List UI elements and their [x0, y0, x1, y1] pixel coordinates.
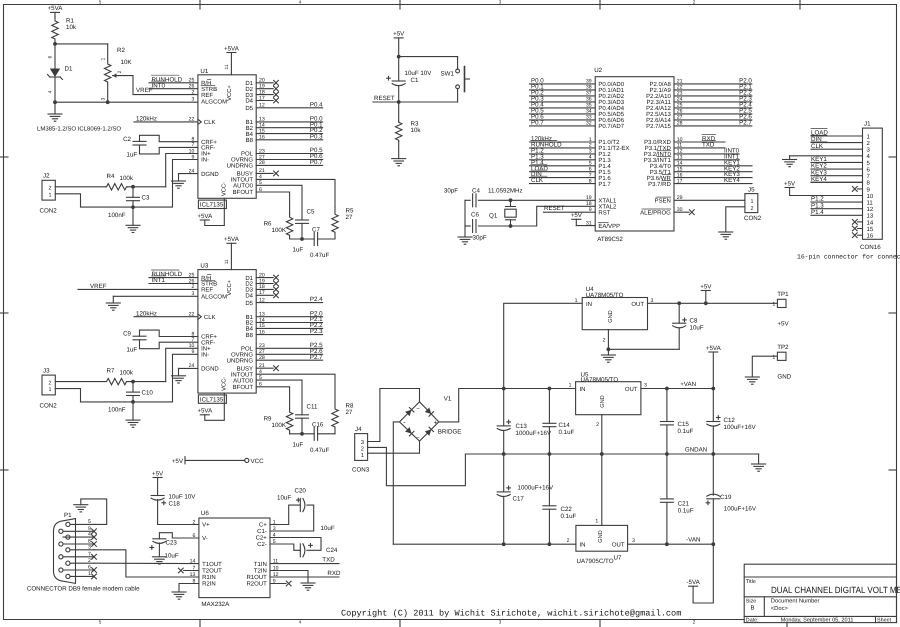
svg-text:U3: U3: [200, 263, 208, 270]
svg-text:XTAL1: XTAL1: [598, 198, 617, 205]
wire: [811, 148, 863, 150]
svg-text:10: 10: [867, 193, 874, 200]
svg-text:0.1uF: 0.1uF: [559, 429, 575, 436]
wire: [811, 161, 863, 163]
note DB9 cable: [27, 586, 140, 593]
svg-text:2: 2: [192, 89, 195, 95]
node KEY4: [724, 177, 740, 184]
power +5V (J1 pin10): [784, 180, 862, 195]
svg-text:P1.1/T2-EX: P1.1/T2-EX: [598, 145, 629, 152]
wire: [256, 127, 322, 129]
svg-text:B4: B4: [246, 326, 254, 333]
wire: [256, 164, 322, 166]
svg-text:DGND: DGND: [201, 366, 219, 373]
svg-text:P0.2/AD2: P0.2/AD2: [598, 93, 624, 100]
svg-text:VCC+: VCC+: [226, 279, 233, 295]
svg-text:1: 1: [772, 302, 775, 308]
wire: [530, 183, 596, 185]
svg-text:+5V: +5V: [784, 180, 796, 187]
svg-text:VCC: VCC: [251, 458, 265, 465]
wire: [256, 185, 302, 220]
ground (R2IN): [172, 592, 186, 599]
node RXD: [702, 135, 716, 143]
svg-text:TP2: TP2: [777, 344, 789, 351]
IC U2 AT89C52: [586, 67, 683, 243]
svg-text:1000uF+16V: 1000uF+16V: [516, 430, 552, 437]
wire: [256, 159, 322, 161]
svg-text:P2.6/A14: P2.6/A14: [646, 117, 671, 124]
svg-text:4: 4: [88, 532, 91, 538]
connector J2 CON2: [40, 173, 58, 215]
capacitor C8 10uF: [673, 303, 704, 331]
svg-text:OUT: OUT: [612, 542, 625, 549]
node P0.0: [310, 116, 323, 123]
capacitor C2 1uF: [123, 135, 198, 158]
svg-text:P0.7/AD7: P0.7/AD7: [598, 123, 624, 130]
crystal Q1 11.0592MHz: [488, 187, 523, 226]
svg-text:C8: C8: [690, 317, 698, 324]
capacitor C6 30pF: [471, 212, 487, 242]
svg-text:T2IN: T2IN: [254, 568, 267, 575]
node KEY3 (J1): [811, 169, 827, 176]
svg-text:R2: R2: [117, 47, 125, 54]
svg-text:4: 4: [48, 90, 54, 93]
svg-text:3: 3: [644, 382, 647, 388]
svg-text:3: 3: [632, 538, 635, 544]
wire: [674, 125, 752, 127]
capacitor C14 0.1uF: [543, 389, 575, 455]
svg-text:P2.2/A10: P2.2/A10: [646, 93, 671, 100]
svg-text:16: 16: [867, 233, 874, 240]
svg-text:1uF: 1uF: [293, 441, 304, 448]
svg-text:C5: C5: [307, 209, 315, 216]
svg-text:+5V: +5V: [172, 458, 184, 465]
switch SW1: [441, 67, 470, 103]
wire: [530, 159, 596, 161]
note LM385: [37, 126, 121, 133]
IC U3 ICL7135: [189, 259, 279, 403]
ground (J5): [719, 232, 733, 239]
wire: [674, 113, 752, 115]
wire: [674, 95, 752, 97]
svg-text:4: 4: [299, 620, 302, 625]
svg-text:U7: U7: [614, 555, 622, 562]
junction: [397, 55, 401, 59]
wire: [811, 208, 863, 210]
node P0.0: [531, 78, 544, 85]
svg-text:R7: R7: [107, 368, 115, 375]
ground (U1 DGND): [172, 174, 186, 189]
wire (U5 OUT +VAN rail): [641, 387, 715, 391]
capacitor C11 1uF: [293, 403, 318, 448]
svg-text:C9: C9: [123, 331, 131, 338]
svg-text:P0.3/AD3: P0.3/AD3: [598, 99, 624, 106]
svg-text:TXD: TXD: [702, 142, 715, 149]
capacitor C18 10uF 10V: [151, 494, 199, 525]
svg-text:C2+: C2+: [256, 535, 268, 542]
svg-text:IN: IN: [580, 542, 586, 549]
node IINT0: [724, 148, 740, 155]
svg-text:U2: U2: [594, 67, 602, 74]
svg-text:P2.5/A13: P2.5/A13: [646, 111, 671, 118]
svg-text:J4: J4: [355, 426, 362, 433]
svg-text:B8: B8: [246, 137, 254, 144]
wire: [674, 153, 739, 155]
wire: [63, 539, 94, 545]
svg-text:P2.7: P2.7: [739, 120, 752, 127]
svg-text:0.1uF: 0.1uF: [561, 513, 577, 520]
svg-text:C22: C22: [561, 506, 573, 513]
node LOAD (J1): [811, 129, 828, 137]
svg-text:B4: B4: [246, 131, 254, 138]
voltage regulator U5 UA78M05: [569, 371, 647, 428]
svg-text:ICL7135: ICL7135: [200, 202, 224, 209]
node P0.2: [531, 90, 544, 97]
node KEY1: [724, 159, 740, 166]
voltage regulator U4 UA78M05: [575, 286, 654, 344]
wire: [63, 551, 94, 557]
wire: [256, 153, 322, 155]
svg-text:DUAL CHANNEL DIGITAL VOLT METE: DUAL CHANNEL DIGITAL VOLT METER: [771, 585, 900, 595]
svg-text:4: 4: [299, 0, 302, 5]
wire (ALGCOM to ground): [113, 296, 198, 303]
wire: [63, 526, 94, 532]
connector J5 CON2: [744, 187, 762, 222]
svg-text:CRF-: CRF-: [201, 145, 215, 152]
node P0.7: [310, 159, 323, 166]
svg-text:1: 1: [101, 57, 107, 60]
svg-text:7: 7: [88, 551, 91, 557]
wire: [256, 322, 322, 324]
svg-text:P1.3: P1.3: [598, 157, 611, 164]
svg-text:VREF: VREF: [90, 283, 107, 290]
power -5VA: [686, 544, 713, 603]
node INT1: [149, 276, 198, 284]
node TXD: [702, 141, 716, 149]
svg-text:Monday, September 05, 2011: Monday, September 05, 2011: [781, 617, 854, 624]
power +5VA (above U3): [224, 236, 240, 270]
no-connect (P1): [92, 535, 97, 540]
node P0.1: [310, 121, 323, 128]
svg-text:0.1uF: 0.1uF: [678, 508, 694, 515]
resistor R7 100k: [106, 368, 134, 385]
svg-text:IN-: IN-: [201, 157, 209, 164]
svg-text:Copyright (C) 2011 by Wichit S: Copyright (C) 2011 by Wichit Sirichote, …: [341, 608, 681, 618]
svg-text:BRIDGE: BRIDGE: [438, 429, 462, 436]
svg-text:100uF+16V: 100uF+16V: [724, 424, 757, 431]
node P2.6: [310, 348, 323, 355]
svg-text:1: 1: [49, 192, 52, 198]
ground (below C3): [126, 207, 140, 232]
no-connect (J1): [852, 220, 862, 225]
title block: [744, 564, 900, 623]
svg-text:1uF: 1uF: [293, 247, 304, 254]
test point TP1: [772, 291, 789, 327]
wire: [63, 565, 94, 571]
svg-text:POL: POL: [241, 346, 254, 353]
svg-text:REF: REF: [201, 92, 213, 99]
svg-text:+5VA: +5VA: [197, 213, 213, 220]
svg-text:+5V: +5V: [393, 31, 405, 38]
node KEY2 (J1): [811, 163, 827, 170]
wire (U4 OUT rail): [648, 301, 778, 305]
node P2.5: [739, 108, 752, 115]
ground (U4): [601, 349, 615, 362]
svg-text:2: 2: [361, 446, 364, 453]
svg-text:B: B: [751, 605, 755, 612]
svg-text:BFOUT: BFOUT: [233, 384, 254, 391]
wire: [256, 359, 322, 361]
node KEY3: [724, 171, 740, 178]
wire (reference ground rail to ALGCOM): [53, 100, 198, 104]
svg-text:100K: 100K: [272, 227, 287, 234]
svg-text:R2OUT: R2OUT: [246, 581, 267, 588]
connector J1 CON16: [860, 121, 882, 251]
svg-text:R2IN: R2IN: [202, 581, 216, 588]
node KEY4 (J1): [811, 176, 827, 183]
svg-text:27: 27: [346, 409, 353, 416]
svg-text:15: 15: [867, 226, 874, 233]
svg-text:CON2: CON2: [40, 402, 58, 409]
node RXD (U6): [327, 570, 341, 577]
node P0.2: [310, 127, 323, 134]
svg-text:100K: 100K: [272, 422, 287, 429]
capacitor C13 1000uF+16V: [497, 389, 552, 455]
capacitor C12 100uF+16V: [707, 389, 757, 455]
svg-text:C12: C12: [724, 417, 736, 424]
svg-text:C1: C1: [411, 77, 419, 84]
svg-text:ICL7135: ICL7135: [200, 396, 224, 403]
note 16-pin connector: [797, 254, 900, 261]
node RESET (U2): [544, 205, 596, 212]
wire: [811, 201, 863, 203]
svg-text:2: 2: [88, 558, 91, 564]
node P2.1: [310, 316, 323, 323]
node P1.3: [531, 153, 544, 160]
svg-text:RESET: RESET: [544, 205, 565, 212]
capacitor C4 30pF: [444, 187, 481, 207]
wire: [674, 147, 725, 149]
svg-text:5: 5: [88, 519, 91, 525]
node P2.4: [739, 102, 752, 109]
svg-text:BUSY: BUSY: [237, 171, 253, 178]
wire (PSEN to J5): [674, 199, 745, 201]
wire: [530, 113, 596, 115]
svg-text:D4: D4: [245, 98, 253, 105]
svg-text:+5VA: +5VA: [224, 45, 240, 52]
test point TP2: [752, 344, 791, 380]
capacitor C1 10uF 10V: [387, 57, 433, 102]
svg-text:1uF: 1uF: [127, 346, 138, 353]
wire: [256, 347, 322, 349]
bridge rectifier V1: [400, 395, 462, 441]
wire: [674, 171, 752, 173]
svg-text:REF: REF: [201, 287, 213, 294]
resistor R1 10k: [52, 16, 77, 44]
wire (XTAL1 rail): [465, 198, 595, 202]
svg-text:UA78M05/TO: UA78M05/TO: [586, 292, 624, 299]
svg-text:P1.6: P1.6: [598, 175, 611, 182]
wire: [530, 125, 596, 127]
svg-text:120kHz: 120kHz: [136, 310, 157, 317]
power +5V to VCC tie: [172, 457, 264, 465]
wire: [530, 171, 596, 173]
wire: [55, 381, 106, 383]
wire (bridge + to rail): [439, 387, 576, 422]
node P1.2: [531, 148, 544, 155]
resistor R8 27: [332, 402, 354, 434]
svg-text:EA/VPP: EA/VPP: [598, 223, 620, 230]
svg-text:OUT: OUT: [631, 301, 644, 308]
svg-text:10uF: 10uF: [690, 324, 704, 331]
ground (TP2): [745, 377, 759, 384]
node P0.3: [310, 133, 323, 140]
svg-text:CON3: CON3: [352, 467, 370, 474]
svg-text:5: 5: [99, 0, 102, 5]
svg-text:U1: U1: [200, 68, 208, 75]
svg-text:C13: C13: [516, 423, 528, 430]
node P2.2: [310, 322, 323, 329]
svg-text:100uF+16V: 100uF+16V: [724, 506, 757, 513]
capacitor C23 10uF: [150, 533, 199, 560]
svg-text:SW1: SW1: [441, 70, 455, 77]
svg-text:INT0: INT0: [152, 82, 166, 89]
svg-text:10uF 10V: 10uF 10V: [169, 494, 197, 501]
power +5VA (above U1): [224, 45, 240, 75]
wire: [674, 101, 752, 103]
no-connect (P1): [92, 529, 97, 534]
svg-text:GND: GND: [777, 374, 791, 381]
svg-text:1: 1: [575, 298, 578, 304]
node P2.7: [310, 354, 323, 361]
wire: [256, 380, 302, 415]
svg-text:C15: C15: [678, 421, 690, 428]
node KEY2: [724, 165, 740, 172]
svg-text:+5V: +5V: [700, 283, 712, 290]
svg-text:CLK: CLK: [531, 177, 544, 184]
wire (J4 pin2): [368, 447, 466, 485]
svg-text:PSEN: PSEN: [654, 198, 670, 205]
svg-text:Date:: Date:: [746, 617, 759, 623]
wire (xtal bottom rail): [465, 225, 511, 227]
svg-text:3: 3: [101, 97, 107, 100]
power +5V (reset): [393, 31, 405, 57]
svg-text:1uF: 1uF: [127, 152, 138, 159]
wire: [290, 433, 315, 435]
wire: [256, 302, 322, 304]
no-connect (P1): [92, 542, 97, 547]
copyright note: [341, 608, 681, 618]
svg-text:VCC+: VCC+: [226, 85, 233, 101]
svg-text:GNDAN: GNDAN: [685, 446, 707, 453]
power +5V (C18): [152, 470, 164, 495]
svg-text:3: 3: [88, 544, 91, 550]
svg-text:P1.4: P1.4: [811, 209, 824, 216]
connector P1 pins: [59, 522, 70, 578]
svg-text:VCC-: VCC-: [221, 377, 228, 391]
svg-text:16-pin connector for connectin: 16-pin connector for connecting: [797, 254, 900, 261]
svg-text:10K: 10K: [121, 59, 133, 66]
svg-text:C10: C10: [142, 389, 154, 396]
node P2.4: [310, 296, 323, 303]
svg-text:C16: C16: [312, 421, 324, 428]
svg-text:UNDRNG: UNDRNG: [227, 357, 254, 364]
node DIN: [531, 170, 547, 178]
wire: [674, 177, 752, 179]
wire (IN+ riser U3): [166, 348, 198, 381]
capacitor C3 100nF: [108, 187, 150, 219]
wire: [674, 159, 739, 161]
wire: [530, 89, 596, 91]
svg-text:BUSY: BUSY: [237, 365, 253, 372]
wire (negative rail): [393, 542, 576, 546]
svg-text:DGND: DGND: [201, 171, 219, 178]
node P1.4 (J1): [811, 209, 824, 216]
svg-text:T2OUT: T2OUT: [202, 568, 222, 575]
svg-text:CONNECTOR DB9 female modem cab: CONNECTOR DB9 female modem cable: [27, 586, 140, 593]
svg-text:UA7905C/TO: UA7905C/TO: [577, 558, 614, 565]
svg-text:+5V: +5V: [152, 470, 164, 477]
svg-text:27: 27: [346, 214, 353, 221]
svg-text:+5V: +5V: [571, 212, 583, 219]
wire: [674, 119, 752, 121]
svg-text:+: +: [434, 420, 438, 427]
wire: [811, 135, 863, 137]
node IINT1: [724, 153, 740, 160]
wire: [530, 141, 596, 143]
resistor R5 27: [332, 207, 354, 239]
svg-text:3: 3: [192, 96, 195, 102]
svg-text:P0.7: P0.7: [310, 159, 323, 166]
svg-text:P1.7: P1.7: [598, 181, 611, 188]
wire: [530, 165, 596, 167]
svg-text:T1IN: T1IN: [254, 561, 267, 568]
svg-text:CLK: CLK: [811, 143, 824, 150]
node -VAN: [686, 537, 700, 544]
node CLK (J1): [811, 142, 827, 150]
svg-text:1: 1: [49, 387, 52, 393]
no-connect (J1): [852, 226, 862, 231]
wire: [318, 238, 335, 240]
svg-text:J2: J2: [43, 173, 50, 180]
svg-text:2: 2: [117, 70, 123, 73]
resistor R6 100K: [264, 214, 293, 240]
IC U1 ICL7135: [189, 64, 279, 208]
wire: [811, 214, 863, 216]
wire: [530, 119, 596, 121]
svg-text:J1: J1: [864, 121, 871, 128]
no-connect (P1): [92, 574, 97, 579]
wire: [811, 142, 863, 144]
svg-text:Document Number: Document Number: [771, 598, 820, 605]
ground (GNDAN): [752, 454, 766, 471]
svg-text:P2.7/A15: P2.7/A15: [646, 123, 671, 130]
svg-text:10k: 10k: [66, 24, 77, 31]
capacitor C16 0.47uF: [310, 421, 329, 454]
wire (ALE no-connect): [674, 210, 694, 215]
svg-text:P2.4/A12: P2.4/A12: [646, 105, 671, 112]
wire: [256, 353, 322, 355]
svg-text:LM385-1.2/SO ICL8069-1.2/SO: LM385-1.2/SO ICL8069-1.2/SO: [37, 126, 121, 133]
svg-text:D5: D5: [245, 105, 253, 112]
svg-text:CON16: CON16: [860, 244, 881, 251]
node TXD (U6): [322, 556, 335, 563]
wire (cap common leg): [464, 200, 466, 226]
svg-text:P2.4: P2.4: [310, 296, 323, 303]
svg-text:GND: GND: [598, 530, 604, 542]
no-connect (J1): [852, 187, 862, 192]
svg-text:Q1: Q1: [489, 213, 498, 220]
